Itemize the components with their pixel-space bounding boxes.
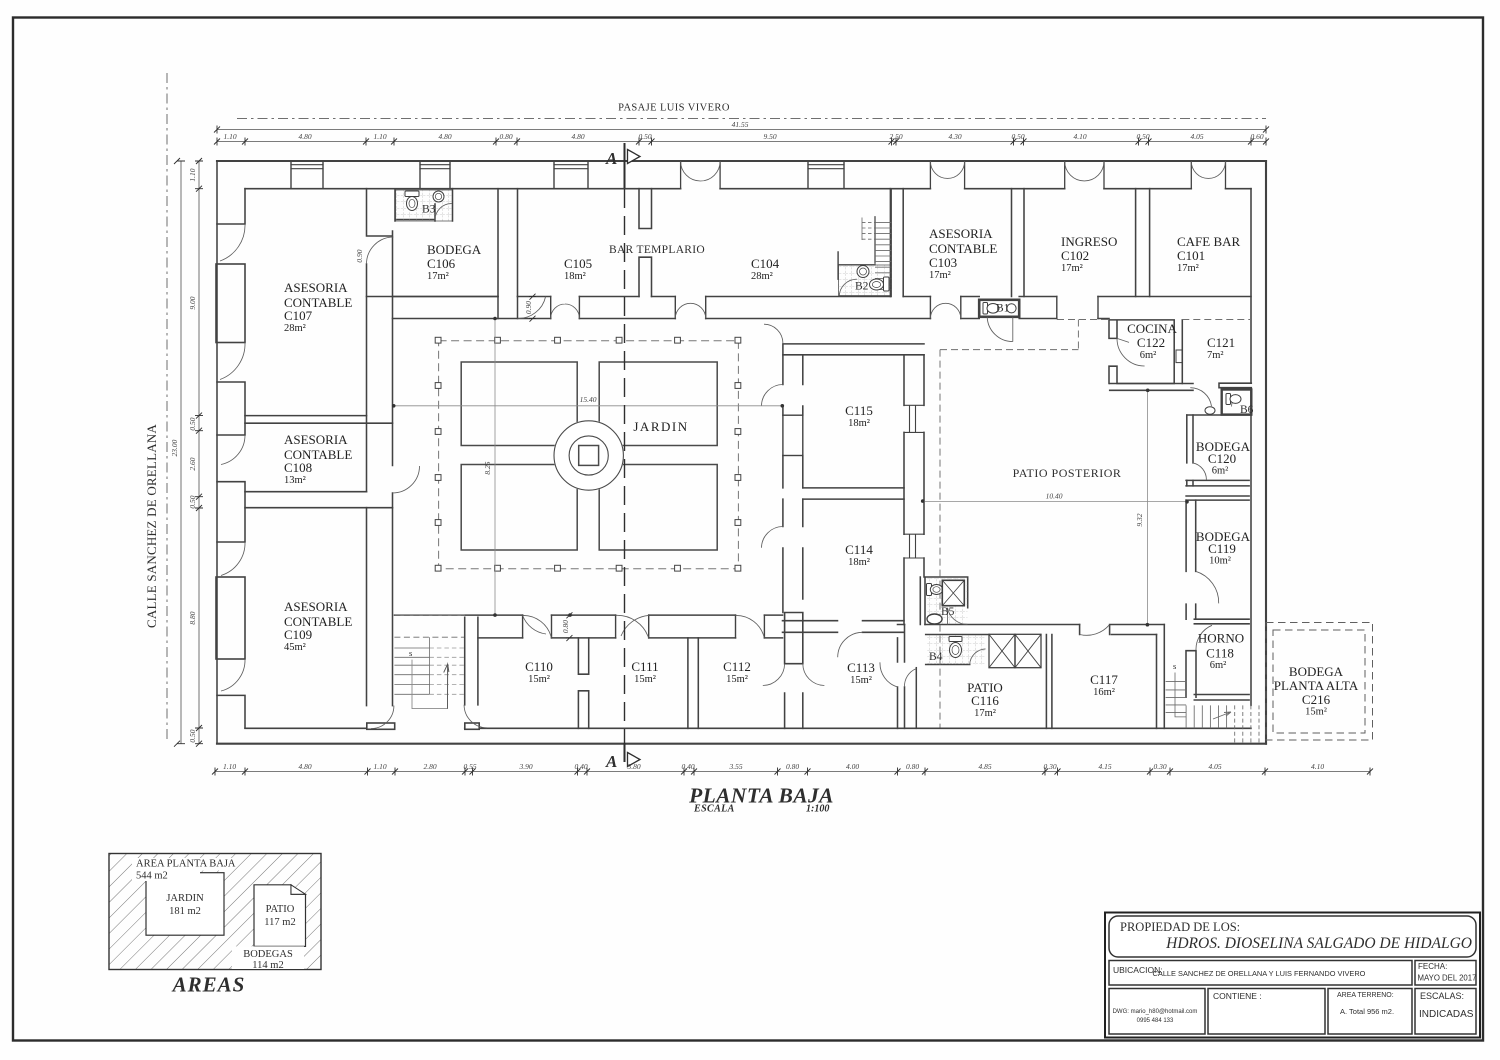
svg-text:BODEGAS: BODEGAS [243,949,293,960]
svg-text:C112: C112 [723,659,751,674]
svg-text:4.80: 4.80 [438,132,451,141]
dim labels top [223,120,1263,141]
double door C105 top window-bay NOT; C106 corridor exit arc [518,297,546,319]
svg-text:ASESORIA: ASESORIA [284,432,348,447]
svg-text:3.55: 3.55 [728,762,742,771]
svg-text:117 m2: 117 m2 [264,917,295,928]
door B1 leaf+arc [987,317,1013,342]
svg-text:41.55: 41.55 [732,120,749,129]
svg-text:8.80: 8.80 [188,611,197,624]
B3 bathroom walls [395,189,453,221]
stairs in C104 [862,217,891,290]
svg-text:18m²: 18m² [848,418,870,429]
right exterior wall outer face [1265,161,1267,744]
door arc C109 bottom exit [371,706,394,729]
C115 block top wall [783,344,924,355]
svg-text:C109: C109 [284,627,312,642]
B5 sink oval [927,614,942,624]
B2 sink [857,266,869,278]
svg-text:181 m2: 181 m2 [169,906,201,917]
door arc B6 [1232,396,1239,407]
divider C108/C109 [245,492,393,508]
door arc walkway SE corner [764,324,783,343]
left wall corner pilaster bottom [217,695,245,728]
svg-text:PLANTA ALTA: PLANTA ALTA [1274,678,1359,693]
C119 top wall pair [1186,496,1249,500]
left segmented dim line [198,161,200,744]
svg-text:1.10: 1.10 [223,762,236,771]
svg-text:B4: B4 [929,651,943,663]
svg-text:0.90: 0.90 [524,301,533,314]
wall C103/C102 pair [1012,189,1025,297]
hline dim 10.40 [924,501,1187,503]
B3 sink [433,191,444,202]
svg-text:FECHA:: FECHA: [1418,962,1447,971]
door arc C108 left [221,435,245,465]
COCINA C122 walls [1109,320,1182,384]
svg-text:C102: C102 [1061,248,1089,263]
left wall pilaster 3 [217,482,245,542]
svg-text:CALLE SANCHEZ DE ORELLANA Y LU: CALLE SANCHEZ DE ORELLANA Y LUIS FERNAND… [1153,969,1366,978]
svg-text:0.80: 0.80 [499,132,512,141]
stairs bottom-right (by HORNO) [1166,673,1259,744]
C114 east window [904,534,924,558]
window W4 (above C104) [808,165,844,169]
C113 west wall lower pair [785,693,803,728]
corridor walls extend through walkway band [498,297,518,319]
bathroom labels [422,204,1254,664]
door arc C115 west [762,385,783,406]
section line A-A [625,143,641,767]
C111/C112 wall pair [688,638,698,728]
BODEGA C216 overhead dashed rectangles [1266,623,1373,741]
B5 bathroom walls [920,577,967,625]
door arc C110 bottom-west [464,705,487,728]
svg-text:ASESORIA: ASESORIA [929,226,993,241]
door arc HORNO C118 [1196,625,1212,650]
C120 left wall [1187,415,1193,486]
svg-text:4.05: 4.05 [1208,762,1221,771]
svg-text:1:100: 1:100 [806,804,829,815]
top segmented dim line [217,141,1266,143]
svg-text:2.60: 2.60 [188,457,197,470]
door arc C109 upper-left [221,542,245,576]
svg-text:INDICADAS: INDICADAS [1419,1009,1474,1020]
C110 west wall pair [465,617,478,705]
svg-text:17m²: 17m² [929,270,951,281]
C117 east wall pair [1157,625,1165,729]
C106 right wall [497,189,499,297]
patio white box with notch [254,885,306,947]
svg-text:0.30: 0.30 [1043,762,1056,771]
svg-text:CONTABLE: CONTABLE [929,241,997,256]
svg-text:4.10: 4.10 [1311,762,1324,771]
svg-text:28m²: 28m² [284,323,306,334]
svg-text:16m²: 16m² [1093,687,1115,698]
stair corridor top thin line [395,614,465,616]
svg-text:17m²: 17m² [427,271,449,282]
svg-text:B5: B5 [941,606,955,618]
right wall inner face [1250,189,1252,706]
svg-text:BAR TEMPLARIO: BAR TEMPLARIO [609,244,705,256]
dim labels left (rotated) [170,168,197,742]
svg-text:1.10: 1.10 [373,762,386,771]
svg-text:0.80: 0.80 [561,620,570,633]
B1 sink [1007,304,1016,313]
svg-text:0.80: 0.80 [906,762,919,771]
stairs bottom-left (corridor) [394,616,464,709]
door arc C113 east [880,662,898,687]
hall door stubs at bottom wall [367,723,395,729]
C120 top wall [1187,414,1252,416]
property line: PASAJE LUIS VIVERO (top, dash-dot) [237,118,1266,120]
fountain center square [579,446,599,466]
C114 bottom wall / C113 top [783,621,905,633]
door arc C108 to walkway [393,466,420,493]
svg-text:28m²: 28m² [751,271,773,282]
svg-text:0.60: 0.60 [1250,132,1263,141]
JARDIN courtyard [435,337,741,571]
B5 shower [942,580,964,605]
svg-text:9.50: 9.50 [763,132,776,141]
B4 toilet [949,637,962,642]
door arc C114 to C113 [838,632,863,657]
svg-text:18m²: 18m² [564,271,586,282]
left wall pilaster 2 [217,382,245,435]
hline 15.40 [394,405,783,407]
divider C107/C108 [245,416,393,424]
svg-text:4.80: 4.80 [298,762,311,771]
svg-text:114 m2: 114 m2 [252,960,283,971]
door arc C112 band [736,615,765,637]
C113 west cross: vertical arm [785,613,803,664]
svg-text:CAFE BAR: CAFE BAR [1177,234,1241,249]
south band jambs [523,615,736,638]
bodegas white strip [232,946,304,969]
svg-text:15m²: 15m² [528,674,550,685]
C121 bottom wall [1219,383,1251,388]
room labels [284,204,1359,720]
svg-text:ESCALA: ESCALA [693,804,735,815]
bottom wall inner face [245,727,1251,729]
svg-text:JARDIN: JARDIN [633,419,688,434]
svg-text:A. Total 956 m2.: A. Total 956 m2. [1340,1007,1394,1016]
door leaf cocina [1117,338,1129,342]
svg-text:C103: C103 [929,255,957,270]
window W3 (above C105) [554,165,588,169]
door arc corridor east of C113 [904,669,916,687]
fixtures [405,191,1241,658]
svg-text:1.10: 1.10 [373,132,386,141]
svg-text:0.50: 0.50 [188,495,197,508]
svg-text:C115: C115 [845,403,873,418]
colonnade column squares top/bottom [435,337,741,571]
svg-text:0.50: 0.50 [1136,132,1149,141]
svg-text:s: s [409,648,412,658]
svg-text:C101: C101 [1177,248,1205,263]
node dots [493,317,497,321]
door arc C107 top-left [220,224,245,261]
svg-text:15m²: 15m² [850,675,872,686]
svg-text:0.50: 0.50 [188,729,197,742]
bathroom tile floors [396,190,986,664]
B6 toilet [1226,394,1231,405]
walkway arcade north band: upper face [367,296,1252,298]
svg-text:0.50: 0.50 [1011,132,1024,141]
svg-text:2.50: 2.50 [889,132,902,141]
C115/C114 east cavity wall [904,355,924,625]
svg-text:HDROS. DIOSELINA SALGADO DE HI: HDROS. DIOSELINA SALGADO DE HIDALGO [1165,935,1472,952]
C120 bottom wall pair [1186,480,1249,486]
jardin white box [146,873,224,936]
svg-text:C108: C108 [284,460,312,475]
svg-text:1.10: 1.10 [223,132,236,141]
corridor east of C113 [915,668,917,729]
dimension lines [181,130,1370,772]
band jamb verticals [551,297,1098,319]
C115 west niche [783,415,803,455]
C119 left wall [1186,500,1196,619]
door arc C120 [1193,463,1206,480]
double door walkway center south [675,303,705,318]
C122/C121 vent window [1176,350,1182,363]
construction thin lines [394,319,1187,625]
B6 bathroom block [1222,390,1252,415]
fountain outer circle [554,421,623,490]
C115 east window [904,405,924,432]
svg-text:0.80: 0.80 [786,762,799,771]
svg-text:9.00: 9.00 [188,296,197,309]
svg-text:45m²: 45m² [284,642,306,653]
door arc COCINA west [1117,338,1145,366]
svg-text:C118: C118 [1206,646,1234,661]
svg-text:ASESORIA: ASESORIA [284,280,348,295]
svg-text:PATIO POSTERIOR: PATIO POSTERIOR [1013,466,1122,480]
title block [1105,913,1480,1038]
door arc C107 mid-left [220,343,245,380]
svg-text:3.80: 3.80 [626,762,640,771]
svg-text:4.85: 4.85 [978,762,991,771]
divider C115/C114 [803,488,904,499]
svg-text:A: A [605,149,617,168]
svg-text:0.55: 0.55 [463,762,476,771]
svg-text:17m²: 17m² [1177,263,1199,274]
door arc B4 [970,649,986,664]
double door C104/C105 street entrance [681,161,721,181]
colonnade dashed rectangle [439,341,739,569]
vline x495 [494,319,496,616]
top band door jamb verticals [681,161,1226,189]
stub wall C105/C104 upper [639,189,652,229]
svg-text:13m²: 13m² [284,475,306,486]
svg-text:AREA TERRENO:: AREA TERRENO: [1337,992,1394,999]
svg-text:C105: C105 [564,256,592,271]
bottom segmented dim line [215,771,1370,773]
svg-text:0.50: 0.50 [638,132,651,141]
B6 sink [1205,407,1215,415]
svg-text:8.25: 8.25 [483,461,492,474]
svg-text:C111: C111 [631,659,658,674]
closet double X right of B4 [989,634,1041,667]
double door C105 south [551,304,580,318]
svg-text:COCINA: COCINA [1127,321,1177,336]
C113 east wall pair [898,625,905,729]
C110/C111 wall pair [578,638,588,728]
B1 bathroom block [979,300,1019,317]
door arc C107 east door [367,237,394,264]
svg-text:C121: C121 [1207,335,1235,350]
svg-text:9.32: 9.32 [1135,513,1144,526]
svg-text:C116: C116 [971,693,999,708]
C106 bottom wall [393,296,499,298]
overall top dim line 41.55 [217,129,1266,131]
svg-text:0995 484 133: 0995 484 133 [1137,1018,1174,1024]
svg-text:CONTIENE :: CONTIENE : [1213,991,1262,1001]
svg-text:C106: C106 [427,256,456,271]
svg-text:15m²: 15m² [634,674,656,685]
svg-text:0.40: 0.40 [574,762,587,771]
svg-text:C120: C120 [1208,451,1236,466]
B2 toilet [884,277,890,291]
svg-text:AREAS: AREAS [171,973,246,997]
stairs C104 enclosure wall [875,189,891,297]
window W1 top-left bay [291,165,323,169]
left wall corner pilaster [217,189,245,224]
svg-text:0.40: 0.40 [681,762,694,771]
window W2 (above B3) [420,165,450,169]
top exterior wall outer face [217,160,1266,162]
door arc C109 lower-left [221,659,245,691]
C116/C117 wall pair [1046,635,1052,729]
B5 toilet [927,584,932,596]
svg-text:4.30: 4.30 [948,132,961,141]
door arc C111 band [616,615,649,637]
vline dim 9.32 [1147,390,1149,624]
C112/C113 band west arm [763,615,765,638]
svg-text:HORNO: HORNO [1198,631,1244,646]
svg-text:ASESORIA: ASESORIA [284,599,348,614]
svg-text:4.80: 4.80 [571,132,584,141]
svg-text:B2: B2 [855,281,869,293]
left wall niche 1 [216,264,245,343]
svg-text:C114: C114 [845,542,873,557]
svg-text:BODEGA: BODEGA [1289,664,1344,679]
dim labels bottom [223,762,1324,771]
svg-text:MAYO DEL 2017: MAYO DEL 2017 [1418,974,1477,983]
door arc patio to B6 corridor [1190,388,1211,407]
svg-text:544 m2: 544 m2 [136,871,168,882]
C115/C114 west wall [783,355,803,613]
svg-text:BODEGA: BODEGA [427,242,482,257]
svg-text:A: A [605,752,617,771]
svg-text:AREA PLANTA BAJA: AREA PLANTA BAJA [136,859,236,870]
svg-text:4.05: 4.05 [1190,132,1203,141]
stub wall C105/C104 lower [639,257,652,296]
svg-text:B6: B6 [1240,404,1254,416]
top wall bay verticals [291,161,844,189]
svg-text:2.80: 2.80 [423,762,436,771]
wall C107 right / C106 left (jog) [367,189,393,466]
HORNO C118 left wall [1186,651,1196,698]
svg-text:C113: C113 [847,660,875,675]
B4/B5 divider band [898,625,1080,635]
planting beds [461,362,717,550]
door arc B5 [948,608,968,625]
fountain white mask [553,420,624,491]
svg-text:DWG: mario_h80@hotmail.com: DWG: mario_h80@hotmail.com [1113,1009,1198,1015]
double door C103 south [930,303,960,318]
svg-text:PROPIEDAD DE LOS:: PROPIEDAD DE LOS: [1120,920,1240,934]
south arcade band upper face [395,614,783,616]
wall C107/C108 right pair lower [367,264,393,706]
svg-text:s: s [1173,661,1176,671]
door arc C117 entry [1080,625,1110,636]
double door C103 street entrance [930,161,964,178]
svg-text:4.80: 4.80 [298,132,311,141]
svg-text:C110: C110 [525,659,553,674]
svg-text:6m²: 6m² [1140,350,1157,361]
door arc B3 [435,204,452,220]
svg-text:17m²: 17m² [1061,263,1083,274]
door arcs cross C112/C113 [763,664,825,686]
svg-text:C119: C119 [1208,541,1236,556]
svg-text:C107: C107 [284,308,313,323]
south arcade band lower face [478,637,783,639]
double door C101 street entrance [1191,161,1225,178]
svg-text:15.40: 15.40 [580,395,597,404]
C117 top wall [1080,625,1165,635]
corridor C106/C105 right wall (C105 left) [517,189,519,297]
door arc C119 [1196,571,1219,603]
svg-text:B1: B1 [996,303,1010,315]
svg-text:7m²: 7m² [1207,350,1224,361]
svg-text:15m²: 15m² [1305,707,1327,718]
svg-text:C104: C104 [751,256,780,271]
svg-text:ESCALAS:: ESCALAS: [1420,991,1464,1001]
svg-text:6m²: 6m² [1212,466,1229,477]
door B2 arc [839,279,857,296]
svg-text:6m²: 6m² [1210,660,1227,671]
svg-text:18m²: 18m² [848,557,870,568]
fountain inner circle [569,436,608,475]
AREAS legend [109,854,321,997]
B1 toilet [983,303,988,315]
walkway arcade north band: lower face [393,318,1110,320]
svg-text:PASAJE LUIS VIVERO: PASAJE LUIS VIVERO [618,103,730,114]
B3 toilet [405,191,419,197]
svg-text:C122: C122 [1137,335,1165,350]
svg-text:B3: B3 [422,204,436,216]
svg-text:3.90: 3.90 [518,762,532,771]
svg-text:CALLE SANCHEZ DE ORELLANA: CALLE SANCHEZ DE ORELLANA [144,424,159,628]
svg-text:4.10: 4.10 [1073,132,1086,141]
svg-text:1.10: 1.10 [188,168,197,181]
B4 bottom wall [926,664,970,666]
svg-text:0.30: 0.30 [1153,762,1166,771]
svg-text:17m²: 17m² [974,708,996,719]
misc rotated dim ticks [529,294,536,322]
property line: CALLE SANCHEZ DE ORELLANA (left, dash-dot) [166,73,168,740]
svg-text:INGRESO: INGRESO [1061,234,1117,249]
svg-text:0.90: 0.90 [355,249,364,262]
svg-text:JARDIN: JARDIN [166,893,204,904]
left wall niche 2 [216,577,245,659]
HORNO bottom wall [1194,695,1249,701]
top wall inner face segments [245,188,1251,190]
left exterior wall outer face [216,161,218,744]
svg-text:10.40: 10.40 [1046,492,1063,501]
svg-text:4.15: 4.15 [1098,762,1111,771]
